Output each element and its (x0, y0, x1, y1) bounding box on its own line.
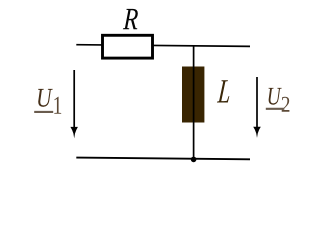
arrow for U1 (down) (73, 70, 75, 129)
label U2 letter U (268, 88, 281, 105)
label U2 subscript 2 (282, 97, 290, 112)
label U1 subscript 1 (54, 97, 61, 114)
wire vertical branch (193, 45, 195, 159)
arrow for U2 (down) (256, 77, 258, 128)
label L (217, 80, 231, 102)
label R (123, 9, 138, 29)
underline of U2 (266, 108, 285, 110)
wire bottom segment (76, 158, 250, 160)
junction node dot (191, 157, 197, 163)
inductor L (182, 67, 204, 123)
resistor R (103, 35, 153, 58)
wire top horizontal (left end to right end, passes behind resistor) (76, 45, 250, 47)
underline of U1 (34, 111, 53, 113)
label U1 letter U (38, 89, 53, 107)
